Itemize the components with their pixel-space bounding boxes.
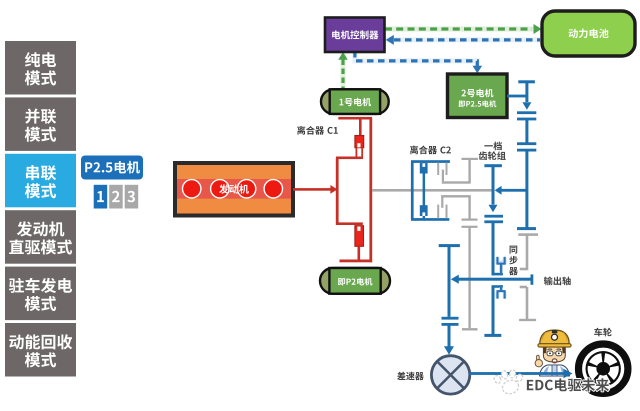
motor controller box xyxy=(325,18,385,53)
gray line C1 to C2 xyxy=(372,189,493,192)
label differential xyxy=(397,372,424,380)
EDC watermark xyxy=(527,378,609,391)
blue dashed line: controller to motor2 xyxy=(355,51,477,70)
mode button 6: 动能回收模式 xyxy=(5,323,76,377)
badge 3 xyxy=(125,185,139,209)
mode button 2: 并联模式 xyxy=(5,97,76,150)
label clutch C1 xyxy=(297,126,338,135)
paw watermark xyxy=(493,369,524,395)
arrow link to first gear shaft xyxy=(500,189,527,192)
wheel icon xyxy=(579,344,628,393)
blue dashed line: battery to controller xyxy=(386,37,540,42)
motor P2 (即P2电机) xyxy=(320,268,390,294)
clutch C2 xyxy=(411,160,450,163)
clutch C1 xyxy=(338,117,372,120)
first gear shaft xyxy=(484,164,502,167)
engine block xyxy=(175,163,293,216)
countershaft gears (gray) xyxy=(437,163,439,175)
mode button 5: 驻车发电模式 xyxy=(5,267,76,321)
motor 2 box xyxy=(448,74,508,118)
badge 1 xyxy=(94,185,108,209)
motor 1 (1号电机) xyxy=(321,89,389,114)
engine output arrow xyxy=(293,188,331,191)
label synchronizer xyxy=(510,246,518,254)
power battery box xyxy=(542,11,635,56)
mode button 3: 串联模式 xyxy=(5,154,76,208)
output shaft xyxy=(455,278,532,281)
green dashed line: controller to battery xyxy=(385,26,534,31)
synchro sleeve shaft (gray) xyxy=(518,233,538,236)
green dashed line: motor1 to controller xyxy=(340,52,345,89)
arrow differential to wheel xyxy=(469,372,565,375)
P2.5 motor tag xyxy=(81,156,143,180)
differential xyxy=(431,356,469,394)
label output shaft xyxy=(544,277,571,286)
mode button 1: 纯电模式 xyxy=(5,41,76,95)
engineer cartoon xyxy=(535,330,571,376)
label wheel xyxy=(594,328,612,337)
label 1st gear set xyxy=(484,142,502,151)
motor2 shaft with gears xyxy=(507,95,527,98)
final drive shaft to differential xyxy=(439,244,460,247)
mode button 4: 发动机直驱模式 xyxy=(5,210,76,264)
synchronizer forks xyxy=(498,258,505,299)
label clutch C2 xyxy=(410,145,451,154)
badge 2 xyxy=(109,185,123,209)
